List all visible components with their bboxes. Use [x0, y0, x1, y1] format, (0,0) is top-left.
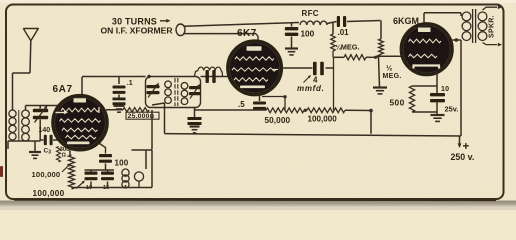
svg-text:100: 100 — [115, 158, 129, 167]
svg-text:140: 140 — [39, 127, 51, 134]
svg-text:100,000: 100,000 — [308, 115, 338, 124]
svg-text:100,000: 100,000 — [32, 170, 61, 179]
svg-text:25.000Ω: 25.000Ω — [128, 113, 155, 120]
svg-text:6A7: 6A7 — [53, 84, 73, 95]
svg-text:Ω: Ω — [62, 153, 67, 159]
svg-text:ON I.F. XFORMER: ON I.F. XFORMER — [101, 26, 174, 36]
svg-text:RFC: RFC — [302, 9, 319, 18]
svg-text:4: 4 — [313, 75, 318, 84]
svg-text:.1: .1 — [127, 80, 133, 87]
svg-text:MEG.: MEG. — [383, 73, 402, 80]
svg-text:mmfd.: mmfd. — [297, 84, 325, 93]
svg-text:50,000: 50,000 — [265, 116, 291, 125]
svg-text:100: 100 — [301, 29, 315, 38]
svg-text:6KGM: 6KGM — [393, 16, 419, 26]
svg-text:500: 500 — [390, 98, 405, 108]
svg-text:10: 10 — [441, 86, 449, 93]
svg-text:.5: .5 — [238, 100, 245, 109]
svg-text:25v.: 25v. — [445, 105, 459, 114]
svg-text:6K7: 6K7 — [237, 28, 257, 39]
svg-text:SPKR.: SPKR. — [489, 15, 496, 38]
svg-text:C3: C3 — [44, 148, 52, 156]
svg-text:½: ½ — [386, 64, 392, 73]
svg-text:.01: .01 — [338, 28, 350, 37]
svg-text:250 v.: 250 v. — [451, 152, 475, 162]
svg-text:100,000: 100,000 — [33, 189, 65, 198]
